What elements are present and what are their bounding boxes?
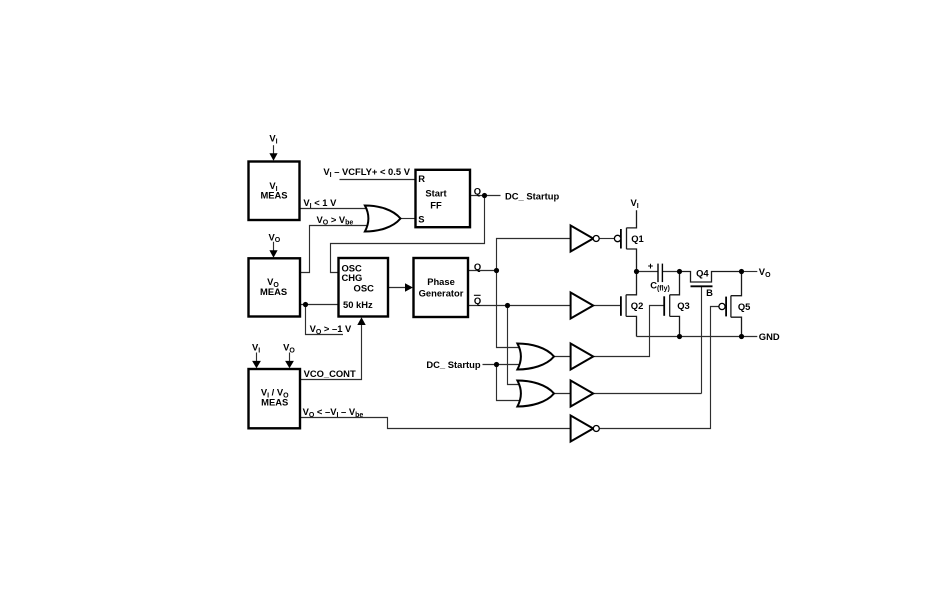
svg-text:VI < 1 V: VI < 1 V: [303, 197, 337, 210]
svg-text:S: S: [418, 213, 424, 224]
svg-text:VO > Vbe: VO > Vbe: [317, 214, 354, 227]
svg-text:MEAS: MEAS: [261, 396, 288, 407]
svg-text:Q: Q: [474, 186, 481, 197]
svg-text:DC_ Startup: DC_ Startup: [426, 359, 480, 370]
svg-text:VO < –VI – Vbe: VO < –VI – Vbe: [303, 406, 364, 419]
svg-text:Q: Q: [474, 295, 481, 306]
svg-text:MEAS: MEAS: [260, 189, 287, 200]
svg-text:VI – VCFLY+ < 0.5 V: VI – VCFLY+ < 0.5 V: [323, 166, 410, 179]
svg-text:R: R: [418, 173, 425, 184]
svg-text:VO: VO: [283, 341, 295, 354]
svg-text:MEAS: MEAS: [260, 286, 287, 297]
svg-text:VO: VO: [759, 266, 771, 279]
svg-text:FF: FF: [430, 199, 442, 210]
svg-text:Phase: Phase: [427, 276, 455, 287]
svg-text:GND: GND: [759, 331, 780, 342]
svg-text:Q: Q: [474, 261, 481, 272]
svg-text:VI: VI: [631, 197, 639, 210]
svg-text:VI: VI: [252, 341, 260, 354]
svg-text:B: B: [706, 287, 713, 298]
svg-text:OSC: OSC: [354, 282, 375, 293]
svg-text:50 kHz: 50 kHz: [343, 299, 373, 310]
svg-text:Q3: Q3: [677, 300, 690, 311]
svg-text:VCO_CONT: VCO_CONT: [304, 368, 356, 379]
svg-text:VO > –1 V: VO > –1 V: [310, 323, 352, 336]
svg-text:VI: VI: [269, 133, 277, 146]
svg-text:Q1: Q1: [631, 233, 644, 244]
svg-text:Q4: Q4: [696, 268, 709, 279]
svg-text:Generator: Generator: [419, 288, 464, 299]
svg-text:C(fly): C(fly): [650, 280, 670, 293]
svg-text:VO: VO: [269, 231, 281, 244]
svg-text:Q5: Q5: [738, 301, 751, 312]
svg-text:+: +: [648, 260, 654, 271]
svg-text:Q2: Q2: [631, 300, 644, 311]
svg-text:DC_ Startup: DC_ Startup: [505, 190, 559, 201]
svg-text:Start: Start: [425, 188, 446, 199]
